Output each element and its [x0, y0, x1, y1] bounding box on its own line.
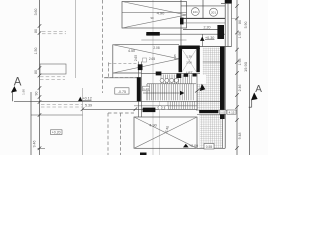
- svg-text:1.50: 1.50: [34, 48, 38, 55]
- svg-text:101: 101: [193, 10, 198, 14]
- svg-text:3.60: 3.60: [34, 9, 38, 16]
- svg-text:5.39: 5.39: [85, 104, 92, 108]
- svg-text:80: 80: [34, 70, 38, 74]
- svg-text:+2.00: +2.00: [189, 144, 198, 148]
- svg-text:1.98: 1.98: [238, 32, 242, 39]
- svg-text:19.90: 19.90: [243, 61, 248, 72]
- svg-text:1.90: 1.90: [22, 89, 26, 95]
- svg-text:+0.20: +0.20: [52, 131, 61, 135]
- svg-text:80: 80: [34, 29, 38, 33]
- svg-text:2.08: 2.08: [186, 61, 192, 65]
- svg-text:2.65: 2.65: [149, 57, 155, 61]
- svg-text:201: 201: [211, 11, 216, 15]
- svg-text:0.05: 0.05: [220, 110, 226, 114]
- svg-text:1.98: 1.98: [238, 59, 242, 66]
- svg-text:2.46: 2.46: [238, 85, 242, 92]
- svg-text:+0.30: +0.30: [205, 36, 214, 40]
- svg-text:80: 80: [238, 20, 242, 24]
- svg-text:4.90: 4.90: [149, 124, 156, 128]
- svg-text:9.48: 9.48: [238, 133, 242, 140]
- svg-text:1.38: 1.38: [186, 55, 192, 59]
- svg-text:+0.12: +0.12: [83, 97, 92, 101]
- svg-text:5.90: 5.90: [244, 22, 248, 29]
- svg-text:2.20: 2.20: [204, 26, 211, 30]
- svg-text:A: A: [255, 84, 262, 95]
- svg-text:2.65: 2.65: [173, 54, 177, 60]
- svg-text:A: A: [14, 77, 22, 89]
- svg-text:90: 90: [150, 16, 154, 20]
- svg-text:1.20: 1.20: [143, 87, 149, 91]
- svg-text:0.55: 0.55: [206, 145, 213, 149]
- svg-text:9.46: 9.46: [33, 141, 37, 148]
- svg-text:4.90: 4.90: [157, 10, 166, 15]
- svg-text:2.08: 2.08: [153, 46, 159, 50]
- svg-text:2.65: 2.65: [134, 55, 138, 61]
- svg-text:90: 90: [35, 92, 39, 96]
- svg-text:4.15: 4.15: [229, 110, 235, 114]
- svg-text:-0.75: -0.75: [118, 90, 126, 94]
- svg-text:4.50: 4.50: [128, 49, 135, 53]
